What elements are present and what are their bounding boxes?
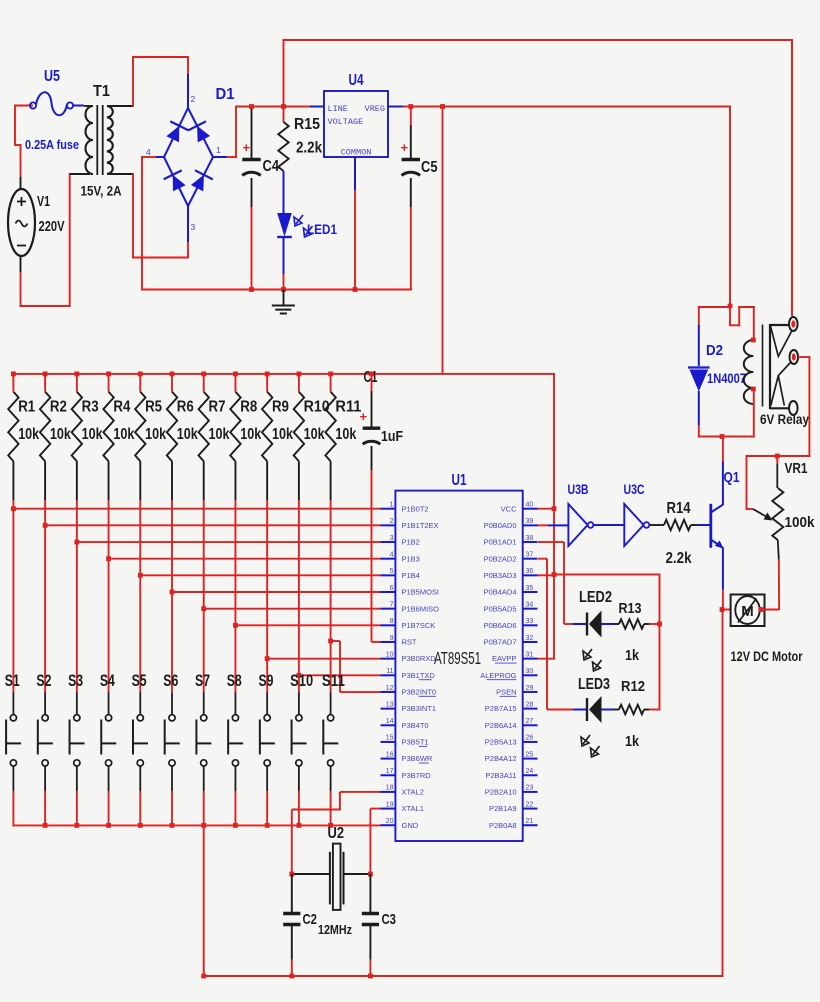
capacitor C2 — [283, 874, 300, 978]
U1 pin 38 stub and label — [484, 535, 538, 547]
junction dot rail R6 — [170, 372, 175, 377]
wire: R1 node to U1 pin 1 — [11, 506, 381, 511]
wire: transformer secondary top to bridge pin 2 — [107, 56, 189, 107]
wire: R3 node to U1 pin 3 — [74, 540, 380, 545]
diode D2 1N4007 — [688, 306, 710, 438]
U1 pin 39 stub and label — [484, 518, 538, 530]
resistor R5 10k — [135, 374, 145, 575]
U1 pin 25 stub and label — [485, 751, 538, 763]
junction dot switch rail S8 — [233, 823, 238, 828]
switch S3 — [70, 542, 85, 826]
svg-text:R3: R3 — [82, 399, 99, 416]
resistor R2 10k — [40, 374, 50, 525]
bridge pin numbers — [146, 94, 221, 232]
IC U1 AT89S51 body — [395, 491, 522, 841]
U1 pin 8 stub and label — [381, 618, 436, 630]
capacitor C5 — [402, 107, 420, 291]
junction dot switch rail S10 — [296, 823, 301, 828]
svg-text:19: 19 — [386, 801, 394, 808]
svg-text:R7: R7 — [209, 399, 226, 416]
junction dot rail R4 — [106, 372, 111, 377]
switch S10 — [292, 675, 307, 826]
svg-text:U1: U1 — [452, 472, 467, 489]
resistor R11 10k — [325, 374, 335, 641]
junction dot switch rail S5 — [138, 823, 143, 828]
wire: fuse to transformer primary top — [73, 105, 93, 108]
wire: bridge pin 1 to +V line — [227, 106, 237, 159]
capacitor C3 — [362, 874, 379, 978]
svg-text:12V DC Motor: 12V DC Motor — [731, 648, 803, 664]
svg-text:S11: S11 — [322, 671, 345, 690]
junction dot switch rail S11 — [328, 823, 333, 828]
wire: S9 node to U1 pin 10 — [265, 656, 381, 661]
svg-text:S5: S5 — [132, 671, 147, 690]
U1 pin 14 stub and label — [381, 718, 429, 730]
wire: R6 node to U1 pin 6 — [170, 590, 381, 595]
U1 pin 13 stub and label — [381, 701, 437, 713]
transformer T1 — [86, 105, 113, 175]
svg-text:VR1: VR1 — [785, 460, 808, 477]
wire: transformer secondary bottom to bridge pin 3 — [107, 173, 189, 259]
svg-text:R1: R1 — [18, 399, 35, 416]
relay coil supply loop — [698, 306, 755, 341]
U1 pin 29 stub and label — [496, 685, 537, 697]
U1 pin 28 stub and label — [485, 701, 538, 713]
wire: +V line down to relay coil box — [728, 107, 733, 309]
svg-text:14: 14 — [386, 718, 394, 725]
svg-text:LED2: LED2 — [579, 589, 612, 606]
wire: Q1 collector to relay coil bottom — [722, 435, 724, 462]
svg-text:P0B3AD3: P0B3AD3 — [484, 571, 517, 580]
wire: relay coil bottom to loop bottom — [753, 389, 755, 438]
wire: U1 pin 31 EAVPP to +5V vertical — [538, 658, 556, 660]
svg-text:U3B: U3B — [568, 482, 589, 497]
svg-text:P0B0AD0: P0B0AD0 — [484, 521, 517, 530]
resistor R14 2.2k — [650, 520, 699, 530]
svg-text:R5: R5 — [145, 399, 162, 416]
wire: relay loop bottom edge — [698, 434, 755, 439]
U1 pin 16 stub and label — [381, 751, 433, 763]
svg-text:U2: U2 — [328, 825, 345, 842]
svg-text:D1: D1 — [216, 86, 235, 103]
inverter U3C — [624, 504, 649, 546]
svg-text:12: 12 — [386, 685, 394, 692]
svg-text:R8: R8 — [240, 399, 257, 416]
svg-text:16: 16 — [386, 751, 394, 758]
svg-text:10k: 10k — [177, 426, 198, 443]
LED2 light arrows — [583, 649, 602, 671]
svg-text:C5: C5 — [421, 159, 438, 176]
junction dot switch rail S7 — [201, 823, 206, 828]
svg-text:XTAL2: XTAL2 — [402, 788, 424, 797]
wire: S11 node to U1 pin 12 — [328, 639, 380, 693]
svg-text:P3B4T0: P3B4T0 — [402, 721, 429, 730]
svg-text:S6: S6 — [163, 671, 178, 690]
wire: motor to bottom rail — [722, 610, 724, 978]
resistor R7 10k — [199, 374, 209, 609]
svg-text:P0B6AD6: P0B6AD6 — [484, 621, 517, 630]
svg-text:2.2k: 2.2k — [666, 550, 692, 567]
svg-text:VREG: VREG — [365, 104, 385, 114]
U1 pin 31 stub and label — [492, 651, 537, 663]
svg-text:S10: S10 — [290, 671, 313, 690]
wire: bottom ground rail y=976 — [201, 974, 723, 979]
svg-text:0.25A fuse: 0.25A fuse — [25, 137, 79, 152]
U1 pin 19 stub and label — [381, 801, 424, 813]
U1 pin 26 stub and label — [485, 735, 538, 747]
svg-text:4: 4 — [146, 147, 151, 157]
svg-text:23: 23 — [526, 785, 534, 792]
resistor R15 — [278, 107, 288, 172]
svg-text:220V: 220V — [39, 219, 65, 235]
relay 6V Relay contacts — [763, 317, 799, 415]
U1 pin 32 stub and label — [484, 635, 538, 647]
svg-text:10: 10 — [386, 651, 394, 658]
junction dot rail R8 — [233, 372, 238, 377]
svg-text:1uF: 1uF — [381, 429, 403, 445]
svg-text:P2B5A13: P2B5A13 — [485, 738, 517, 747]
resistor R4 10k — [103, 374, 113, 559]
resistor R10 10k — [294, 374, 304, 675]
wire: V1 bottom to transformer primary bottom — [20, 173, 91, 307]
svg-text:D2: D2 — [706, 342, 723, 359]
U1 pin 30 stub and label — [480, 668, 537, 680]
wire: U1 XTAL1 to crystal — [370, 809, 380, 874]
switch S4 — [101, 559, 116, 826]
resistor R13 1k — [613, 619, 662, 629]
svg-text:1k: 1k — [625, 733, 640, 750]
junction dot switch rail S3 — [74, 823, 79, 828]
wire: ground rail y=289 — [141, 289, 412, 291]
svg-text:P2B2A10: P2B2A10 — [485, 788, 517, 797]
svg-text:2.2k: 2.2k — [296, 140, 322, 157]
wire: +V riser to logic rail — [440, 104, 445, 374]
svg-text:S2: S2 — [36, 671, 51, 690]
svg-text:17: 17 — [386, 768, 394, 775]
svg-text:20: 20 — [386, 818, 394, 825]
svg-text:35: 35 — [526, 585, 534, 592]
svg-text:R12: R12 — [621, 678, 645, 695]
wire: relay NO contact to VR1 top — [798, 357, 810, 457]
svg-text:10k: 10k — [50, 426, 71, 443]
wire: R8 node to U1 pin 8 — [233, 623, 380, 628]
svg-text:10k: 10k — [113, 426, 134, 443]
svg-text:VCC: VCC — [501, 504, 517, 513]
resistor R3 10k — [72, 374, 82, 542]
U1 pin 4 stub and label — [381, 551, 420, 563]
svg-text:P1B3: P1B3 — [402, 554, 420, 563]
svg-text:27: 27 — [526, 718, 534, 725]
svg-text:21: 21 — [526, 818, 534, 825]
svg-text:C2: C2 — [303, 911, 318, 928]
svg-text:P1B4: P1B4 — [402, 571, 420, 580]
svg-text:Q1: Q1 — [724, 469, 740, 486]
wire: switch rail to bottom rail — [203, 825, 205, 977]
wire: unregulated +V line y=106 — [236, 106, 731, 108]
svg-text:AT89S51: AT89S51 — [434, 648, 481, 668]
U1 pin 2 stub and label — [381, 518, 439, 530]
junction dot switch rail S9 — [265, 823, 270, 828]
svg-text:PSEN: PSEN — [496, 688, 516, 697]
switch S7 — [196, 609, 211, 826]
svg-text:37: 37 — [526, 551, 534, 558]
svg-text:R9: R9 — [272, 399, 289, 416]
svg-text:7: 7 — [390, 601, 394, 608]
svg-text:S4: S4 — [100, 671, 115, 690]
wire: S10 node to U1 pin 11 — [296, 673, 380, 678]
svg-text:P1B2: P1B2 — [402, 538, 420, 547]
crystal U2 12MHz — [293, 844, 370, 910]
svg-text:39: 39 — [526, 518, 534, 525]
svg-text:1: 1 — [216, 145, 221, 155]
motor 12V DC Motor — [720, 595, 780, 627]
svg-text:3: 3 — [191, 222, 196, 232]
svg-text:10k: 10k — [209, 426, 230, 443]
junction dot switch rail S2 — [43, 823, 48, 828]
svg-text:31: 31 — [526, 651, 534, 658]
switch S9 — [260, 659, 275, 826]
wire: bridge pin 4 to ground rail — [141, 156, 156, 291]
inverter U3B — [568, 504, 593, 546]
svg-text:LINE: LINE — [328, 104, 348, 114]
wire: U1 VCC pin 40 to +5V vertical — [538, 506, 557, 511]
capacitor C4 — [242, 107, 260, 290]
svg-text:5: 5 — [390, 568, 394, 575]
svg-text:R10: R10 — [304, 399, 330, 416]
junction dot C1 — [369, 372, 374, 377]
svg-text:S8: S8 — [227, 671, 242, 690]
svg-text:33: 33 — [526, 618, 534, 625]
switch S2 — [38, 525, 53, 826]
resistor R1 10k — [8, 374, 18, 509]
potentiometer VR1 100k — [746, 454, 811, 610]
svg-text:U3C: U3C — [624, 482, 645, 497]
svg-text:R6: R6 — [177, 399, 194, 416]
junction dot rail R5 — [138, 372, 143, 377]
svg-text:6V Relay: 6V Relay — [760, 412, 809, 427]
junction dot rail R1 — [11, 372, 16, 377]
svg-text:S7: S7 — [195, 671, 210, 690]
svg-text:P2B3A11: P2B3A11 — [485, 771, 516, 780]
LED3 light arrows — [581, 735, 600, 757]
svg-text:LED1: LED1 — [307, 221, 337, 237]
junction dot rail R7 — [201, 372, 206, 377]
svg-text:C4: C4 — [263, 158, 280, 175]
svg-text:18: 18 — [386, 785, 394, 792]
switch S8 — [228, 625, 243, 826]
junction dot switch rail S4 — [106, 823, 111, 828]
U1 pin 34 stub and label — [484, 601, 538, 613]
switch S11 — [323, 641, 338, 826]
svg-text:29: 29 — [526, 685, 534, 692]
U1 pin 24 stub and label — [485, 768, 537, 780]
svg-text:28: 28 — [526, 701, 534, 708]
svg-text:V1: V1 — [37, 194, 50, 210]
U1 pin 1 stub and label — [381, 502, 429, 514]
U1 pin 3 stub and label — [381, 535, 420, 547]
svg-text:10k: 10k — [145, 426, 166, 443]
svg-text:9: 9 — [390, 635, 394, 642]
svg-text:40: 40 — [526, 502, 534, 509]
U1 pin 40 stub and label — [501, 502, 538, 514]
svg-text:R11: R11 — [335, 399, 361, 416]
svg-text:R14: R14 — [667, 500, 691, 517]
junction dot rail R3 — [74, 372, 79, 377]
junction dots R15/LED1 — [281, 104, 286, 292]
svg-text:P3B2INT0: P3B2INT0 — [402, 688, 437, 697]
svg-text:P1B7SCK: P1B7SCK — [402, 621, 436, 630]
svg-text:+: + — [401, 140, 409, 155]
svg-text:R2: R2 — [50, 399, 67, 416]
U1 pin 21 stub and label — [489, 818, 538, 830]
ground symbol — [272, 290, 295, 314]
LED1 — [277, 171, 292, 290]
svg-text:36: 36 — [526, 568, 534, 575]
wire: C1 to U1 pin 9 RST — [372, 641, 381, 643]
wire: top +V rail y=40 — [283, 39, 794, 313]
svg-text:S1: S1 — [5, 671, 20, 690]
svg-text:10k: 10k — [18, 426, 39, 443]
U1 pin 9 stub and label — [381, 635, 417, 647]
svg-text:24: 24 — [526, 768, 534, 775]
svg-text:T1: T1 — [93, 83, 110, 100]
resistor R6 10k — [167, 374, 177, 592]
svg-text:10k: 10k — [304, 426, 325, 443]
svg-text:4: 4 — [390, 551, 394, 558]
U1 pin 11 stub and label — [381, 668, 436, 680]
svg-text:+: + — [243, 140, 251, 155]
junction dot rail R10 — [296, 372, 301, 377]
svg-text:P3B3INT1: P3B3INT1 — [402, 704, 437, 713]
transistor Q1 — [711, 461, 724, 590]
svg-text:VOLTAGE: VOLTAGE — [328, 117, 364, 127]
U1 pin 37 stub and label — [484, 551, 538, 563]
wire: U3B output to U3C input — [594, 524, 625, 526]
LED2 — [538, 542, 613, 638]
svg-text:GND: GND — [402, 821, 419, 830]
svg-text:10k: 10k — [82, 426, 103, 443]
svg-text:100k: 100k — [785, 515, 816, 531]
svg-text:P1B6MISO: P1B6MISO — [402, 604, 440, 613]
wire: R14 to Q1 base — [699, 524, 711, 526]
svg-text:6: 6 — [390, 585, 394, 592]
svg-text:+: + — [360, 409, 368, 424]
svg-text:1k: 1k — [625, 647, 640, 664]
LED1 light arrows — [294, 215, 313, 237]
wire: switch ground rail y=825 — [12, 824, 380, 826]
wire: U1 pin 36 node to LED feed rail — [538, 572, 660, 577]
wire: VCC rail y=374 — [12, 374, 555, 660]
svg-text:P3B5T1: P3B5T1 — [402, 738, 429, 747]
U1 pin 12 stub and label — [381, 685, 437, 697]
wire: R2 node to U1 pin 2 — [43, 523, 381, 528]
junction dot switch rail S6 — [170, 823, 175, 828]
junction dot C5 — [408, 104, 413, 109]
U1 pin 18 stub and label — [381, 785, 424, 797]
bridge rectifier D1 — [156, 74, 227, 242]
fuse U5 — [30, 92, 73, 115]
junction dot rail R11 — [328, 372, 333, 377]
svg-text:P3B1TXD: P3B1TXD — [402, 671, 436, 680]
svg-text:P0B4AD4: P0B4AD4 — [484, 588, 517, 597]
svg-text:11: 11 — [386, 668, 393, 675]
wire: R4 node to U1 pin 4 — [106, 556, 380, 561]
svg-text:2: 2 — [191, 94, 196, 104]
svg-text:38: 38 — [526, 535, 534, 542]
wire: Q1 emitter to motor — [722, 589, 724, 610]
svg-text:3: 3 — [390, 535, 394, 542]
svg-text:P3B7RD: P3B7RD — [402, 771, 432, 780]
svg-text:30: 30 — [526, 668, 534, 675]
svg-text:P2B6A14: P2B6A14 — [485, 721, 517, 730]
svg-text:C3: C3 — [382, 911, 397, 928]
svg-text:P1B5MOSI: P1B5MOSI — [402, 588, 440, 597]
svg-text:R13: R13 — [619, 600, 642, 617]
svg-text:P0B1AD1: P0B1AD1 — [484, 538, 517, 547]
wire: top rail to relay common contact — [791, 40, 793, 316]
capacitor C1 — [363, 374, 381, 642]
junction dot rail R9 — [265, 372, 270, 377]
switch S1 — [6, 509, 21, 826]
U1 pin 23 stub and label — [485, 785, 538, 797]
U1 pin 22 stub and label — [489, 801, 538, 813]
svg-text:P3B6WR: P3B6WR — [402, 754, 433, 763]
svg-text:S3: S3 — [68, 671, 83, 690]
wire: R7 node to U1 pin 7 — [201, 606, 380, 611]
svg-text:XTAL1: XTAL1 — [402, 804, 424, 813]
svg-text:25: 25 — [526, 751, 534, 758]
svg-text:P2B4A12: P2B4A12 — [485, 754, 517, 763]
U1 pin 20 stub and label — [381, 818, 419, 830]
svg-text:15: 15 — [386, 735, 394, 742]
wire: U4 common to ground rail — [353, 190, 358, 292]
resistor R8 10k — [230, 374, 240, 625]
switch S6 — [165, 592, 180, 826]
junction dots C4 — [249, 104, 254, 292]
LED3 — [538, 559, 613, 723]
wire: LED feed rail right vertical — [659, 574, 661, 711]
svg-text:P2B0A8: P2B0A8 — [489, 821, 517, 830]
svg-text:10k: 10k — [335, 426, 356, 443]
svg-text:2: 2 — [390, 518, 394, 525]
U1 pin 6 stub and label — [381, 585, 440, 597]
svg-text:13: 13 — [386, 701, 394, 708]
svg-text:P2B1A9: P2B1A9 — [489, 804, 517, 813]
svg-text:P0B7AD7: P0B7AD7 — [484, 638, 517, 647]
wire: U1 XTAL2 to crystal — [292, 792, 381, 874]
svg-text:EAVPP: EAVPP — [492, 654, 516, 663]
U1 pin 15 stub and label — [381, 735, 429, 747]
wire: AC source top to fuse — [14, 105, 33, 191]
svg-text:34: 34 — [526, 601, 534, 608]
U1 pin 36 stub and label — [484, 568, 538, 580]
wire: R5 node to U1 pin 5 — [138, 573, 381, 578]
U1 pin 27 stub and label — [485, 718, 538, 730]
U1 pin 35 stub and label — [484, 585, 538, 597]
svg-text:R4: R4 — [113, 399, 130, 416]
U1 pin 5 stub and label — [381, 568, 420, 580]
junction dot rail R2 — [43, 372, 48, 377]
svg-text:12MHz: 12MHz — [318, 922, 352, 937]
resistor R9 10k — [262, 374, 272, 659]
svg-text:U4: U4 — [349, 72, 364, 89]
svg-text:S9: S9 — [258, 671, 273, 690]
voltage regulator U4 — [310, 91, 403, 190]
svg-text:P3B0RXD: P3B0RXD — [402, 654, 437, 663]
U1 pin 33 stub and label — [484, 618, 538, 630]
svg-text:15V, 2A: 15V, 2A — [81, 184, 122, 199]
svg-text:RST: RST — [402, 638, 417, 647]
